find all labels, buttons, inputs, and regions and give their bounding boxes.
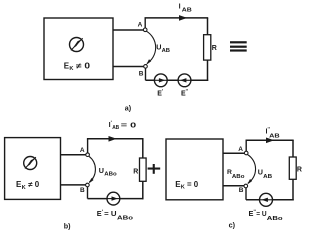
right rail a lower xyxy=(207,60,209,81)
voltage arc U_AB c xyxy=(247,155,255,185)
svg-text:a): a) xyxy=(125,104,132,113)
active network box b xyxy=(5,138,61,200)
voltage arc U_AB a xyxy=(146,31,155,65)
wire box b to node A xyxy=(61,154,88,156)
wire box a to node B xyxy=(113,66,146,68)
svg-text:= U: = U xyxy=(104,209,116,218)
current arrow c xyxy=(266,138,274,144)
source E' circle b xyxy=(107,192,120,205)
svg-text:AB: AB xyxy=(112,125,119,131)
label Ek != 0 in box b xyxy=(16,180,40,191)
label U_AB a xyxy=(156,42,170,54)
top rail a xyxy=(145,17,209,19)
svg-text:K: K xyxy=(22,185,26,191)
passive network box c xyxy=(166,139,223,200)
svg-text:R: R xyxy=(212,45,217,52)
source E'' circle a xyxy=(178,74,191,87)
wire box b to node B xyxy=(61,184,88,186)
wire node B down to bottom rail c xyxy=(245,186,247,200)
meter needle a xyxy=(71,38,83,50)
label Ek = 0 in box c xyxy=(175,180,199,190)
node B a xyxy=(144,65,148,69)
bottom rail b xyxy=(88,198,144,200)
label E' = U_ABo b xyxy=(97,209,134,222)
node B b xyxy=(86,183,90,187)
meter circle in box a xyxy=(70,38,84,52)
label I'_AB = 0 b xyxy=(109,119,137,131)
label Ek != 0 in box a xyxy=(64,61,91,72)
svg-text:c): c) xyxy=(229,220,236,229)
svg-text:U: U xyxy=(99,166,104,175)
svg-text:ABo: ABo xyxy=(232,174,245,180)
resistor R a xyxy=(204,35,211,60)
resistor R c xyxy=(289,157,296,179)
right rail a upper xyxy=(207,18,209,35)
svg-text:K: K xyxy=(181,185,185,191)
svg-text:= 0: = 0 xyxy=(187,180,199,189)
svg-text:B: B xyxy=(139,70,144,77)
wire box c to node A xyxy=(223,152,246,154)
current arrow a xyxy=(179,15,187,21)
svg-text:R: R xyxy=(297,166,302,173)
svg-text:AB: AB xyxy=(182,7,192,13)
node A a xyxy=(143,28,147,32)
svg-text:A: A xyxy=(238,146,243,153)
node A b xyxy=(86,153,90,157)
active network box a xyxy=(44,18,113,80)
right rail c lower xyxy=(292,179,294,201)
svg-text:AB: AB xyxy=(263,174,272,180)
wire node B down to bottom rail a xyxy=(145,66,147,80)
source E'' circle c xyxy=(260,193,273,206)
right rail c upper xyxy=(292,140,294,157)
svg-text:AB: AB xyxy=(269,133,280,139)
top rail c xyxy=(246,139,294,141)
label I_AB a xyxy=(179,2,192,14)
svg-text:b): b) xyxy=(64,222,71,231)
svg-text:K: K xyxy=(69,66,73,72)
wire node A up to top rail c xyxy=(245,140,247,151)
label R_ABo c xyxy=(227,169,245,180)
resistor R b xyxy=(140,158,147,181)
right rail b upper xyxy=(142,139,144,159)
svg-text:I: I xyxy=(179,2,181,11)
wire box c to node B xyxy=(223,185,246,187)
plus sign between b and c xyxy=(148,164,161,174)
equivalence sign xyxy=(230,41,247,51)
wire box a to node A xyxy=(113,29,145,31)
wire node A up to top rail a xyxy=(144,18,146,29)
svg-text:A: A xyxy=(80,147,85,154)
meter circle in box b xyxy=(24,157,37,170)
top rail b xyxy=(87,138,144,140)
voltage arc U_ABo b xyxy=(89,156,96,183)
svg-text:= U: = U xyxy=(256,209,266,218)
svg-text:ABo: ABo xyxy=(267,216,284,222)
label I''_AB c xyxy=(266,126,280,139)
svg-text:A: A xyxy=(138,22,143,29)
source E' circle a xyxy=(154,74,167,87)
svg-text:≠ 0: ≠ 0 xyxy=(28,180,40,189)
wire node A up to top rail b xyxy=(87,139,89,153)
svg-text:ABo: ABo xyxy=(117,216,134,222)
node A c xyxy=(244,151,248,155)
bottom rail a xyxy=(146,79,209,81)
label U_AB c xyxy=(258,167,272,179)
label U_ABo b xyxy=(99,166,118,178)
label E'' = U_ABo c xyxy=(249,209,284,222)
svg-text:AB: AB xyxy=(162,48,171,54)
svg-text:R: R xyxy=(133,168,138,175)
svg-text:≠ 0: ≠ 0 xyxy=(76,61,91,70)
svg-text:ABo: ABo xyxy=(104,172,117,178)
svg-text:B: B xyxy=(239,187,244,194)
meter needle b xyxy=(25,157,36,168)
node B c xyxy=(244,184,248,188)
wire node B down to bottom rail b xyxy=(87,185,89,199)
current arrow b xyxy=(109,136,117,142)
right rail b lower xyxy=(142,181,144,199)
bottom rail c xyxy=(246,199,294,201)
svg-text:B: B xyxy=(80,187,85,194)
svg-text:= 0: = 0 xyxy=(121,121,136,130)
